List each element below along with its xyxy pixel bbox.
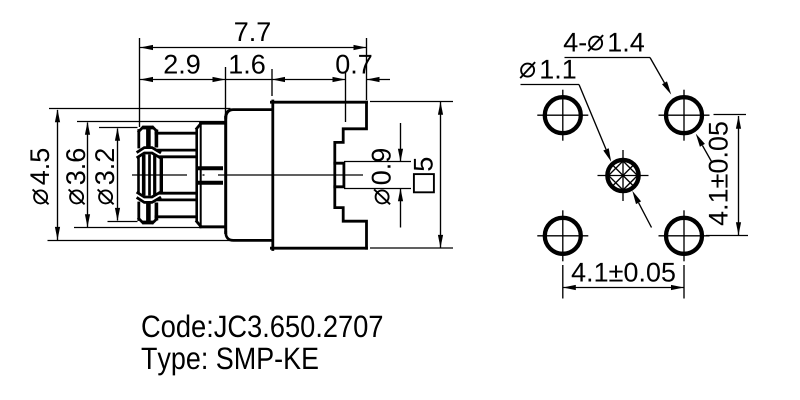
dimension 7.7 bbox=[140, 47, 367, 49]
dimension 4.1±0.05 vertical bbox=[714, 114, 747, 116]
outer tube lower wall bbox=[158, 198, 197, 201]
hole bottom-right bbox=[659, 210, 710, 261]
leader far-side segment top-right hole bbox=[702, 145, 711, 161]
label 4-Ø1.4 with leader bbox=[564, 33, 644, 52]
hole top-right bbox=[659, 90, 710, 141]
dimension Ø3.6 bbox=[77, 121, 225, 123]
outer tube upper wall bbox=[156, 132, 197, 135]
hole top-left bbox=[537, 90, 588, 141]
dimension Ø0.9 bbox=[344, 161, 411, 163]
dimension Ø4.5 bbox=[49, 108, 231, 110]
dimension square-5 bbox=[370, 101, 453, 103]
leader far-side segment center hole bbox=[639, 203, 652, 228]
square flange body bbox=[271, 101, 366, 250]
extension line right (x=366.5) bbox=[366, 38, 368, 100]
hole bottom-left bbox=[537, 210, 588, 261]
part code text bbox=[142, 315, 382, 338]
part type text bbox=[142, 347, 318, 375]
label Ø1.1 with leader bbox=[541, 60, 575, 79]
center contact in collar bbox=[198, 166, 223, 170]
center hole Ø1.1 bbox=[598, 150, 649, 201]
dimension Ø3.2 bbox=[99, 127, 138, 129]
extension line x=225.4 bbox=[225, 67, 227, 116]
extension line x=272 bbox=[271, 69, 273, 96]
main cylinder (Ø4.5 section) bbox=[226, 110, 272, 241]
extension line x=345.8 bbox=[345, 71, 347, 122]
center pin tab (Ø0.9) bbox=[335, 163, 344, 187]
dimension 0.7 bbox=[333, 77, 346, 82]
bead joint chevron bottom bbox=[138, 192, 160, 197]
extension line left (x=139.5) bbox=[139, 38, 141, 127]
snap ring bead 2 (middle socket contact) bbox=[139, 154, 155, 196]
snap ring bead 3 (bottom) bbox=[139, 201, 157, 223]
snap ring bead 1 (top) bbox=[139, 127, 157, 149]
centerline axis bbox=[132, 174, 363, 176]
bead joint chevron top bbox=[138, 148, 160, 153]
dielectric bushing outline bbox=[160, 155, 197, 158]
dimension 4.1±0.05 horizontal bbox=[562, 265, 564, 299]
dimension 1.6 bbox=[272, 79, 346, 81]
dimension 2.9 bbox=[140, 79, 272, 81]
body collar (Ø3.6 section) bbox=[197, 123, 225, 227]
